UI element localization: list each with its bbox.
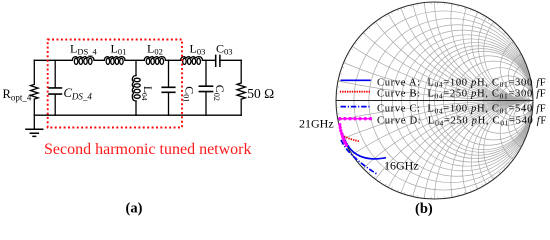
- resistor 50 ohm: [240, 60, 242, 115]
- legend line D: [340, 118, 371, 120]
- ground: [33, 115, 35, 129]
- inductor L_03: [181, 57, 203, 65]
- capacitor C_DS_4: [54, 60, 56, 115]
- inductor L_DS_4: [72, 57, 94, 65]
- wire bottom rail: [34, 114, 241, 116]
- svg-text:Second harmonic tuned network: Second harmonic tuned network: [44, 141, 252, 158]
- capacitor C_01: [168, 60, 170, 115]
- curve C data (blue dash-dot): [341, 140, 377, 174]
- rim ticks: [337, 3, 532, 198]
- svg-text:Curve B: L04=250 pH, C01=300: Curve B: L04=250 pH, C01=300 fF: [377, 89, 546, 101]
- legend line C: [341, 106, 371, 108]
- capacitor C_02: [205, 60, 207, 115]
- curve B data (red dotted): [342, 135, 359, 141]
- capacitor C_03: [216, 55, 220, 66]
- legend line B: [340, 91, 371, 93]
- legend texts: [377, 77, 547, 127]
- svg-text:Curve A: L04=100 pH, C01=300: Curve A: L04=100 pH, C01=300 fF: [377, 77, 546, 89]
- smith outer circle: [336, 2, 533, 199]
- inductor L_02: [144, 57, 165, 65]
- svg-text:21GHz: 21GHz: [299, 116, 334, 130]
- svg-text:Curve D: L04=250 pH, C01=540: Curve D: L04=250 pH, C01=540 fF: [377, 116, 547, 128]
- inductor L_01: [104, 57, 125, 65]
- legend line A: [341, 79, 371, 81]
- curve D data (magenta with markers): [338, 123, 348, 147]
- legend: [338, 77, 547, 127]
- curve A data (blue solid): [341, 130, 386, 159]
- resistor R_opt_4: [33, 60, 35, 115]
- svg-text:(a): (a): [126, 201, 143, 217]
- smith axis: [336, 100, 533, 102]
- svg-text:Curve C: L04=100 pH, C01=540: Curve C: L04=100 pH, C01=540 fF: [377, 104, 546, 116]
- red dashed box: second harmonic network: [48, 40, 182, 128]
- wire top rail: [34, 59, 241, 61]
- svg-text:50 Ω: 50 Ω: [247, 86, 274, 101]
- svg-text:16GHz: 16GHz: [384, 158, 419, 172]
- svg-text:(b): (b): [415, 201, 433, 217]
- inductor L_04: [135, 60, 137, 115]
